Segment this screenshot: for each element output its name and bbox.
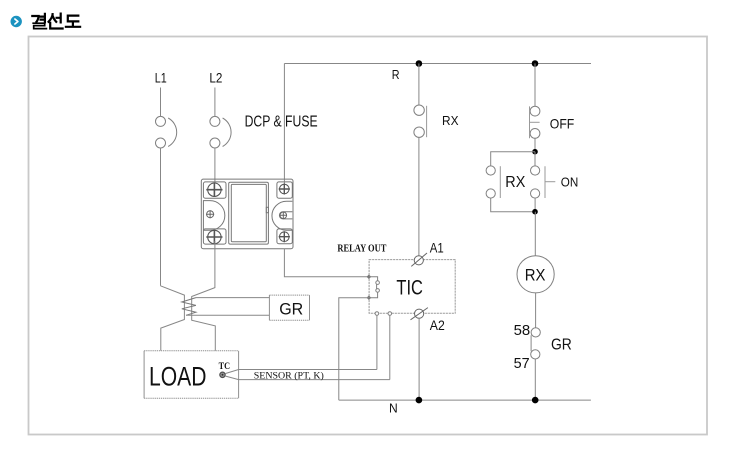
svg-text:R: R xyxy=(392,67,400,82)
GR relay box xyxy=(269,295,309,320)
wire TIC relay to N xyxy=(339,298,369,400)
svg-text:57: 57 xyxy=(514,355,530,372)
wire L1 down xyxy=(160,148,162,286)
coil RX xyxy=(517,256,554,293)
wire L1 through ZCT xyxy=(161,286,185,351)
SSR pad terminal 3 xyxy=(203,229,226,244)
SSR body xyxy=(229,182,269,244)
ZCT coil zigzag xyxy=(182,298,196,316)
node parallel bottom xyxy=(532,209,538,215)
wire coil to 58 xyxy=(535,293,537,328)
wire parallel left branch xyxy=(491,152,535,212)
wire SSR4 to TIC relay contact xyxy=(284,249,369,277)
svg-text:L1: L1 xyxy=(155,69,167,85)
wire to RX coil xyxy=(534,212,536,256)
terminal TIC sensor right xyxy=(388,312,392,316)
SSR screw 2 xyxy=(279,184,290,195)
svg-text:SENSOR (PT, K): SENSOR (PT, K) xyxy=(254,371,324,382)
node TIC relay upper xyxy=(367,275,372,280)
wire sensor lower xyxy=(225,376,390,380)
svg-text:DCP & FUSE: DCP & FUSE xyxy=(245,114,318,131)
TC terminal xyxy=(220,372,225,377)
title 결선도 (drawn as strokes) xyxy=(32,14,80,29)
breaker L1 xyxy=(156,116,177,148)
terminal 57 xyxy=(531,350,540,359)
LOAD box xyxy=(144,351,239,399)
node N-A2 junction xyxy=(416,397,423,404)
SSR screw 3 xyxy=(206,230,222,244)
node parallel top xyxy=(532,149,538,155)
wire 58-57 tangent xyxy=(530,335,532,351)
svg-text:TC: TC xyxy=(219,362,231,372)
terminal TIC sensor left xyxy=(375,312,379,316)
svg-text:58: 58 xyxy=(514,322,531,339)
wire 57 to N xyxy=(534,359,536,400)
svg-text:TIC: TIC xyxy=(396,275,423,299)
node R-A1 junction xyxy=(416,60,423,67)
wire R to OFF xyxy=(534,64,536,107)
SSR screw 4 xyxy=(279,231,290,242)
contact RX holding xyxy=(486,166,500,198)
SSR pad terminal 4 xyxy=(277,229,292,244)
svg-text:N: N xyxy=(389,401,398,416)
svg-text:GR: GR xyxy=(279,300,303,319)
wire L2 top xyxy=(214,88,216,117)
svg-text:OFF: OFF xyxy=(550,116,575,132)
wire L1 top xyxy=(160,88,162,117)
wire SSR out left down xyxy=(192,241,216,351)
TIC box xyxy=(369,260,455,314)
SSR screw 1 xyxy=(206,183,222,197)
wire A2 to N xyxy=(418,318,420,400)
SSR slot screw xyxy=(280,212,287,220)
svg-text:ON: ON xyxy=(561,176,579,190)
wire sensor up to TIC left xyxy=(376,315,378,369)
node N-coil junction xyxy=(532,397,539,404)
svg-text:RELAY OUT: RELAY OUT xyxy=(337,244,386,255)
SSR pad terminal 1 xyxy=(203,182,226,198)
contact RX (a-contact) xyxy=(414,105,427,137)
wire N rail xyxy=(339,399,591,401)
node TIC relay lower xyxy=(367,295,372,300)
wire ZCT to GR upper xyxy=(196,297,270,299)
SSR right mounting slot xyxy=(272,201,292,230)
pushbutton ON (a-contact) xyxy=(531,166,556,198)
wire sensor up to TIC right xyxy=(389,315,391,379)
wire R rail xyxy=(284,63,591,65)
wire OFF to junction xyxy=(534,138,536,151)
wire ON branch upper xyxy=(534,152,536,166)
svg-text:GR: GR xyxy=(551,337,572,354)
terminal 58 xyxy=(531,328,540,337)
wire R rail drop to SSR xyxy=(283,64,285,187)
breaker L2 xyxy=(210,116,231,148)
wire RX contact to A1 xyxy=(418,137,420,255)
wire L2 to SSR xyxy=(214,148,216,186)
header bullet icon xyxy=(11,16,22,27)
wire ON to junction xyxy=(534,198,536,212)
svg-text:RX: RX xyxy=(505,174,525,191)
SSR left mounting lobe xyxy=(203,201,224,231)
terminal A2 xyxy=(411,308,428,320)
svg-text:LOAD: LOAD xyxy=(149,362,207,392)
svg-text:A1: A1 xyxy=(430,239,444,255)
terminal A1 xyxy=(411,253,427,266)
svg-text:A2: A2 xyxy=(430,317,445,333)
svg-text:RX: RX xyxy=(525,265,546,284)
SSR left lobe screw xyxy=(206,210,214,218)
wire ZCT to GR lower xyxy=(186,314,269,316)
node R-right junction xyxy=(532,60,539,67)
pushbutton OFF (b-contact) xyxy=(530,106,540,138)
wire junction to RX contact xyxy=(418,64,420,106)
wire sensor upper xyxy=(225,370,377,374)
svg-text:L2: L2 xyxy=(209,69,222,85)
contact TIC relay out xyxy=(369,277,380,298)
SSR pad terminal 2 xyxy=(277,182,292,198)
svg-text:RX: RX xyxy=(442,114,459,128)
